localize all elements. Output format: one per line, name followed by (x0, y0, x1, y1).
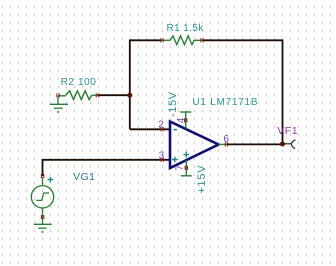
pin marker pin7 (185, 166, 187, 170)
op-amp minus input mark (173, 129, 177, 131)
pin marker R1 right (201, 38, 203, 42)
svg-text:U1 LM7171B: U1 LM7171B (192, 97, 258, 108)
op-amp plus input mark (172, 157, 178, 163)
voltage pin VF1 probe (285, 140, 296, 149)
svg-text:VG1: VG1 (73, 171, 96, 183)
pin marker R2 left (57, 93, 59, 97)
ground at R2 (50, 97, 68, 113)
ground at VG1 (34, 218, 52, 233)
op-amp plus supply mark (184, 152, 190, 158)
wire top feedback right segment (202, 39, 283, 41)
wire VG1 vertical (42, 159, 44, 176)
svg-text:6: 6 (223, 134, 229, 145)
wire right vertical (feedback) (282, 40, 284, 145)
svg-text:R1 1.5k: R1 1.5k (167, 23, 205, 34)
wire R2 to node (97, 94, 130, 96)
svg-text:7: 7 (175, 165, 186, 171)
pin marker VG1 bottom (41, 215, 43, 219)
wire left vertical (feedback to inverting input) (129, 40, 131, 130)
pin marker pin6 (225, 142, 227, 146)
VG1 plus polarity mark (48, 177, 54, 183)
voltage source VG1 (31, 177, 53, 218)
svg-text:-15V: -15V (167, 91, 179, 117)
wire top feedback left segment (130, 39, 162, 41)
wire pin3 horizontal (43, 159, 170, 161)
pin marker R1 left (161, 38, 163, 42)
svg-text:R2 100: R2 100 (61, 77, 97, 88)
svg-text:VF1: VF1 (277, 125, 298, 137)
power bar V- top (180, 112, 191, 129)
pin marker pin3 (161, 158, 163, 162)
pin marker pin4 (185, 118, 187, 122)
op-amp U1 triangle (170, 122, 219, 169)
pin marker VG1 top (41, 174, 43, 178)
node junction at output VF1 (280, 142, 285, 147)
op-amp output stub (219, 143, 227, 145)
power bar V+ bottom (181, 160, 192, 176)
pin marker R2 right (96, 93, 98, 97)
wire pin2 horizontal (130, 128, 170, 130)
node junction at R2/feedback (127, 93, 132, 98)
pin marker pin2 (161, 127, 163, 131)
resistor R1 (162, 36, 202, 45)
svg-text:+15V: +15V (196, 165, 208, 194)
resistor R2 (58, 91, 97, 100)
wire output horizontal (226, 143, 282, 145)
